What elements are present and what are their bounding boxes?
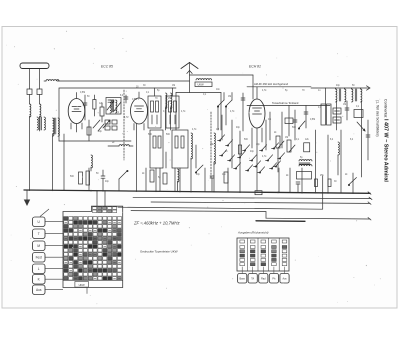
svg-text:0,5M: 0,5M: [80, 92, 85, 94]
svg-text:Ausgaben (Rückansicht): Ausgaben (Rückansicht): [237, 231, 269, 235]
svg-text:L: L: [38, 267, 40, 271]
svg-text:TA: TA: [251, 278, 254, 281]
svg-text:Tonaufnahme Tonband: Tonaufnahme Tonband: [272, 101, 299, 105]
svg-text:Rad: Rad: [261, 278, 266, 281]
svg-text:Gedruckte Typenleiste UKW: Gedruckte Typenleiste UKW: [140, 250, 178, 254]
svg-text:1M: 1M: [216, 129, 219, 131]
svg-text:Continental:: Continental:: [384, 99, 388, 118]
svg-text:UKW: UKW: [79, 283, 86, 287]
svg-text:Bass: Bass: [240, 278, 246, 281]
svg-text:1M: 1M: [343, 104, 346, 106]
svg-text:M: M: [37, 244, 40, 248]
svg-text:UKW: UKW: [198, 83, 205, 87]
svg-text:ECH 81: ECH 81: [249, 65, 261, 69]
svg-text:1M: 1M: [285, 137, 288, 139]
svg-text:I 407 W ~ Stereo Admiral: I 407 W ~ Stereo Admiral: [383, 119, 389, 182]
svg-text:0,5M: 0,5M: [310, 119, 315, 121]
svg-text:AM-ZF 460 kHz durchgehend: AM-ZF 460 kHz durchgehend: [254, 82, 289, 86]
svg-text:1M: 1M: [172, 85, 175, 87]
svg-text:T: T: [38, 232, 40, 236]
svg-text:Fest: Fest: [36, 256, 42, 260]
svg-text:Aus: Aus: [36, 288, 42, 292]
svg-text:ZF = 460kHz + 10,7MHz: ZF = 460kHz + 10,7MHz: [133, 221, 180, 226]
svg-text:(1. Teil des Schaltbildes): (1. Teil des Schaltbildes): [375, 100, 379, 137]
svg-text:0,5M: 0,5M: [132, 99, 137, 101]
svg-text:ECC 85: ECC 85: [101, 65, 113, 69]
svg-text:1M: 1M: [228, 96, 231, 98]
